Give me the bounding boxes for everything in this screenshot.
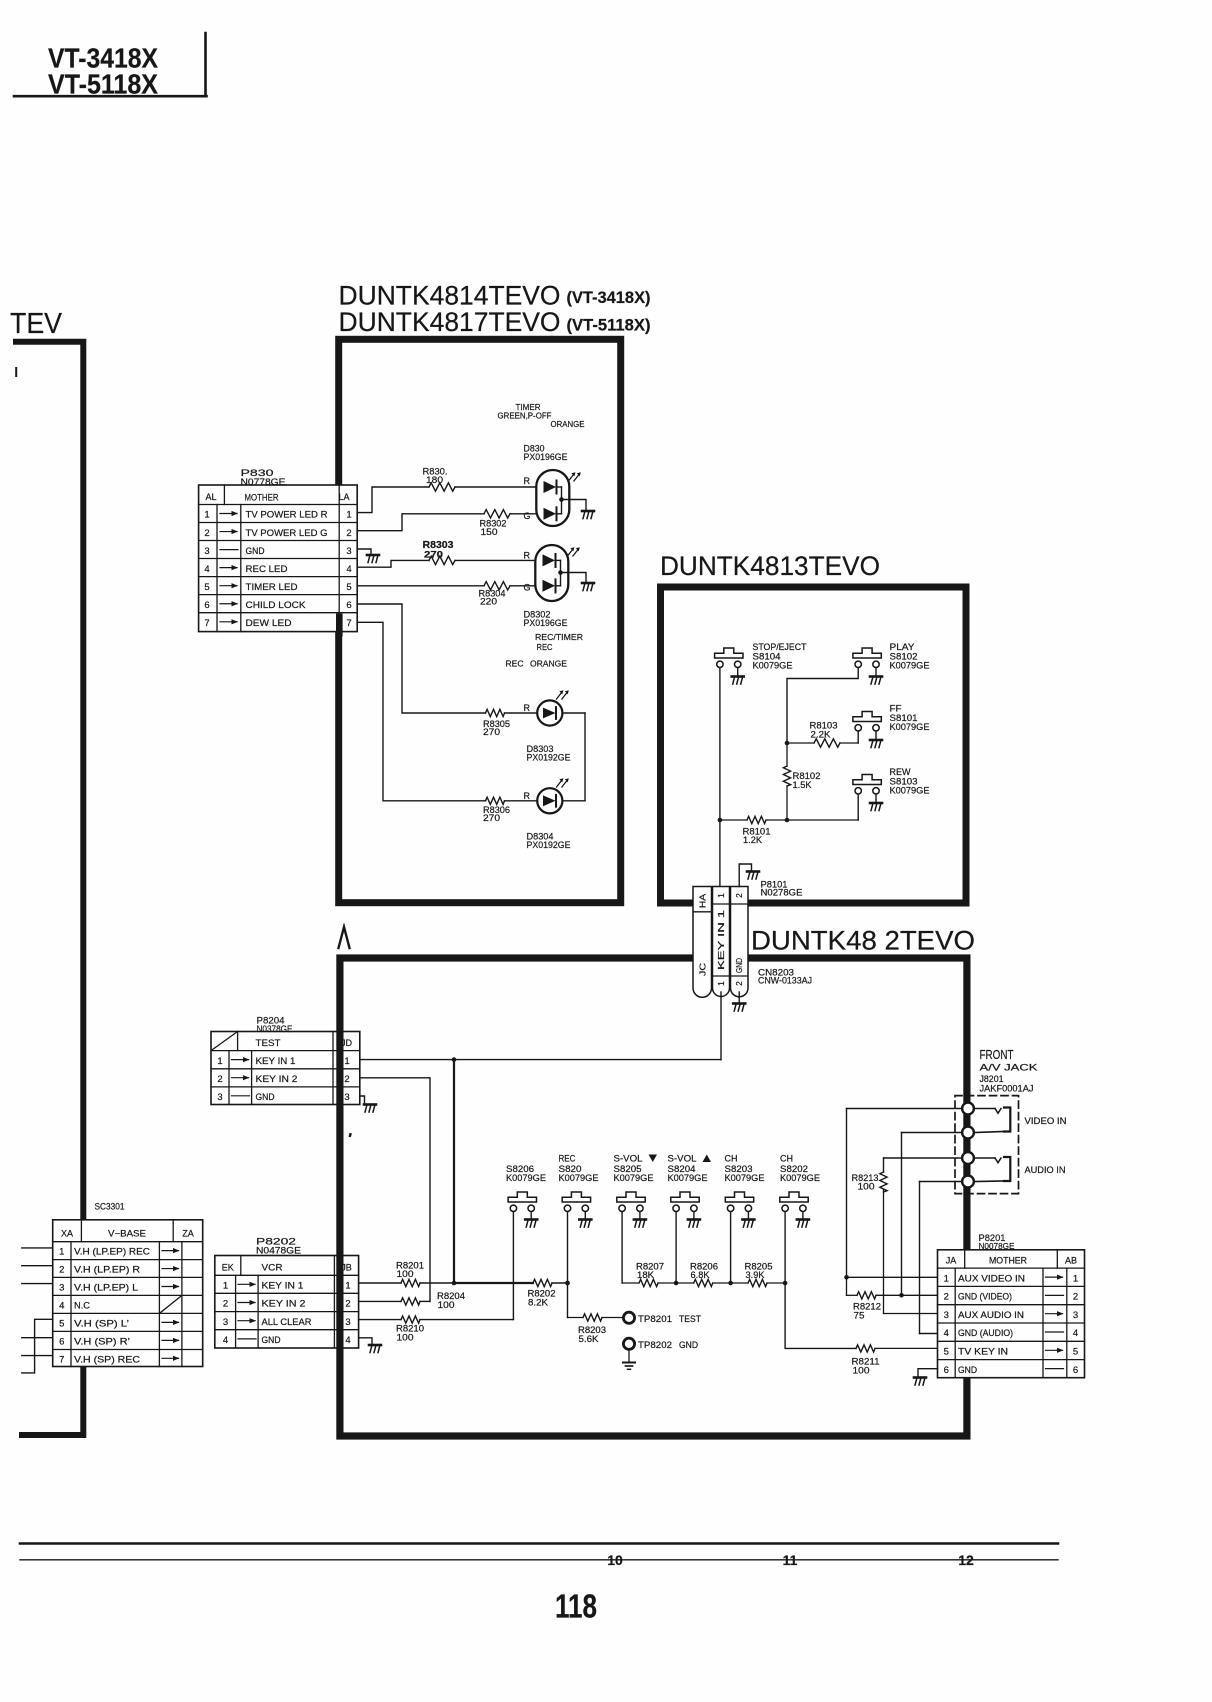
resistor R8213 100 bbox=[852, 1172, 939, 1314]
svg-text:K0079GE: K0079GE bbox=[890, 661, 930, 671]
svg-text:1: 1 bbox=[59, 1247, 64, 1258]
svg-text:JD: JD bbox=[341, 1038, 353, 1048]
connector table SC3301 bbox=[53, 1220, 203, 1367]
svg-text:K0079GE: K0079GE bbox=[506, 1173, 546, 1183]
svg-text:ORANGE: ORANGE bbox=[551, 419, 585, 429]
wire S8205 to ladder bbox=[621, 1212, 623, 1283]
svg-text:5: 5 bbox=[59, 1319, 64, 1330]
svg-text:3: 3 bbox=[346, 546, 351, 557]
label STOP/EJECT S8104 K0079GE bbox=[753, 642, 807, 671]
connector P8101/CN8203 pillars bbox=[693, 887, 748, 998]
svg-text:R: R bbox=[524, 551, 531, 561]
svg-text:GND: GND bbox=[958, 1365, 977, 1375]
svg-text:6: 6 bbox=[1073, 1365, 1078, 1376]
svg-text:GND: GND bbox=[256, 1092, 275, 1103]
LED D8304 bbox=[537, 788, 562, 813]
speck bbox=[349, 1133, 352, 1137]
svg-text:75: 75 bbox=[854, 1311, 865, 1321]
connector P8204 labels bbox=[257, 1016, 293, 1036]
svg-text:1: 1 bbox=[944, 1273, 949, 1284]
svg-text:GND: GND bbox=[262, 1335, 281, 1346]
board edge segment over table bbox=[336, 614, 343, 637]
wire audio gnd to GND (AUDIO) bbox=[920, 1182, 963, 1334]
svg-text:VT-5118X: VT-5118X bbox=[48, 69, 158, 100]
connector P830 labels bbox=[241, 468, 286, 488]
ground bbox=[525, 1220, 537, 1228]
label S8205 K0079GE bbox=[614, 1154, 658, 1184]
svg-text:1: 1 bbox=[223, 1281, 228, 1292]
resistor R8306 270 bbox=[483, 797, 537, 823]
svg-text:100: 100 bbox=[397, 1269, 414, 1279]
ground bbox=[582, 583, 594, 591]
svg-text:6.8K: 6.8K bbox=[691, 1270, 710, 1280]
svg-text:PX0192GE: PX0192GE bbox=[527, 840, 571, 851]
resistor R8101 1.2K bbox=[720, 816, 858, 845]
svg-text:5: 5 bbox=[346, 582, 351, 593]
wire P830 pin5 to R8304 bbox=[357, 585, 484, 587]
wire S8204 to ladder bbox=[674, 1212, 679, 1285]
connector P8202 labels bbox=[256, 1237, 301, 1257]
svg-text:FF: FF bbox=[890, 704, 903, 714]
wire S8202 key to R8211 bbox=[785, 1283, 856, 1348]
wire S8203 to ladder bbox=[728, 1212, 733, 1285]
svg-text:V.H (SP) L’: V.H (SP) L’ bbox=[74, 1319, 129, 1329]
svg-text:1: 1 bbox=[344, 1056, 349, 1067]
wire D8303/D8304 cathode tie bbox=[562, 713, 585, 801]
svg-text:2: 2 bbox=[344, 1074, 349, 1085]
board outline DUNTK48-2TEVO box bbox=[340, 958, 967, 1436]
svg-text:3: 3 bbox=[344, 1092, 349, 1103]
wire P8204 pin1 KEY IN 1 bus bbox=[360, 1057, 721, 1062]
switch S8206 bbox=[508, 1192, 536, 1212]
svg-text:REC: REC bbox=[506, 659, 524, 669]
svg-text:11: 11 bbox=[783, 1552, 798, 1568]
svg-text:(VT-5118X): (VT-5118X) bbox=[567, 316, 651, 335]
ground bbox=[747, 872, 759, 880]
svg-text:3: 3 bbox=[345, 1317, 350, 1328]
label TP8202 GND bbox=[638, 1340, 698, 1350]
svg-text:R: R bbox=[524, 703, 531, 713]
wire switch to ground bbox=[747, 1212, 749, 1219]
svg-text:2: 2 bbox=[59, 1265, 64, 1276]
label S820 K0079GE bbox=[559, 1154, 599, 1184]
svg-text:TP8201: TP8201 bbox=[638, 1314, 672, 1324]
svg-text:18K: 18K bbox=[637, 1270, 654, 1280]
svg-text:G: G bbox=[524, 511, 531, 521]
svg-text:HA: HA bbox=[698, 893, 708, 908]
svg-text:REC/TIMER: REC/TIMER bbox=[535, 632, 583, 642]
svg-text:S-VOL: S-VOL bbox=[668, 1154, 697, 1164]
wire S8101 to ground bbox=[875, 731, 877, 739]
svg-text:K0079GE: K0079GE bbox=[725, 1173, 765, 1183]
svg-text:V.H (LP.EP) R: V.H (LP.EP) R bbox=[74, 1265, 141, 1275]
svg-text:3: 3 bbox=[59, 1283, 64, 1294]
svg-text:180: 180 bbox=[426, 475, 443, 485]
svg-text:GND (AUDIO): GND (AUDIO) bbox=[958, 1328, 1013, 1338]
resistor R8102 1.5K bbox=[783, 743, 820, 820]
svg-text:REW: REW bbox=[890, 767, 912, 777]
svg-text:2: 2 bbox=[223, 1299, 228, 1310]
wire SC3301 pin6 bbox=[22, 1337, 53, 1339]
svg-text:JB: JB bbox=[341, 1263, 352, 1273]
svg-text:J8201: J8201 bbox=[980, 1074, 1004, 1084]
wire P830 pin3 to ground bbox=[357, 549, 371, 555]
label S8203 K0079GE bbox=[725, 1154, 765, 1184]
svg-text:5: 5 bbox=[1073, 1347, 1078, 1358]
resistor R8211 100 bbox=[852, 1345, 939, 1376]
svg-text:270: 270 bbox=[424, 549, 443, 560]
svg-text:A/V JACK: A/V JACK bbox=[980, 1063, 1038, 1073]
svg-text:270: 270 bbox=[483, 813, 500, 823]
svg-text:MOTHER: MOTHER bbox=[989, 1256, 1027, 1267]
svg-text:K0079GE: K0079GE bbox=[559, 1173, 599, 1183]
svg-text:6: 6 bbox=[944, 1365, 949, 1376]
svg-text:PLAY: PLAY bbox=[890, 642, 915, 652]
svg-text:6: 6 bbox=[204, 600, 209, 611]
wire P8202 pin3 ALL CLEAR to S8206 bbox=[359, 1319, 401, 1321]
svg-text:KEY IN 2: KEY IN 2 bbox=[256, 1074, 298, 1085]
ground bbox=[733, 1004, 745, 1012]
svg-text:K0079GE: K0079GE bbox=[780, 1173, 820, 1183]
footer rule lower bbox=[20, 1559, 1058, 1561]
svg-text:GND: GND bbox=[734, 958, 744, 973]
label PLAY S8102 K0079GE bbox=[890, 642, 930, 671]
light arrows D830 bbox=[569, 472, 581, 481]
svg-text:4: 4 bbox=[345, 1335, 350, 1346]
resistor R8303 270 bbox=[423, 540, 536, 565]
wire CN8203 pin2 to ground bbox=[738, 992, 740, 1003]
ground bbox=[732, 677, 744, 685]
ground bbox=[369, 1345, 381, 1353]
svg-text:5: 5 bbox=[204, 582, 209, 593]
resistor R8204 100 bbox=[401, 1291, 465, 1310]
svg-text:TEST: TEST bbox=[256, 1038, 281, 1049]
jack AUDIO IN symbol bbox=[974, 1157, 1010, 1182]
svg-text:2: 2 bbox=[944, 1292, 949, 1303]
test point TP8201 bbox=[623, 1312, 634, 1323]
svg-text:K0079GE: K0079GE bbox=[890, 786, 930, 796]
label J8201 JAKF0001AJ bbox=[980, 1074, 1034, 1094]
wire video tip to AUX VIDEO IN bbox=[844, 1109, 962, 1280]
wire S8102 to R8102 node bbox=[787, 668, 858, 743]
svg-text:JAKF0001AJ: JAKF0001AJ bbox=[980, 1084, 1034, 1094]
svg-text:N0278GE: N0278GE bbox=[761, 888, 803, 898]
label D8302 PX0196GE bbox=[524, 610, 568, 630]
node REC key junction bbox=[565, 1281, 570, 1286]
wire D830 cathode to ground bbox=[562, 500, 587, 511]
jack VIDEO IN symbol bbox=[974, 1108, 1010, 1133]
wire S8104 to ground bbox=[737, 668, 739, 676]
switch S8205 S-VOL bbox=[617, 1192, 645, 1212]
svg-text:PX0196GE: PX0196GE bbox=[524, 618, 568, 629]
svg-text:DUNTK4814TEVO: DUNTK4814TEVO bbox=[339, 281, 561, 311]
wire S8103 down to bus bbox=[857, 794, 859, 820]
svg-text:R: R bbox=[524, 791, 531, 801]
svg-text:GND: GND bbox=[679, 1340, 698, 1350]
wire P8202 pin1 to R8201 bbox=[359, 1282, 401, 1284]
label S8206 K0079GE bbox=[506, 1164, 546, 1183]
switch S8101 FF bbox=[853, 712, 881, 732]
resistor R8205 3.9K bbox=[731, 1262, 786, 1287]
svg-text:3: 3 bbox=[204, 546, 209, 557]
light arrows D8303 bbox=[557, 690, 569, 699]
jack J8201 contacts bbox=[962, 1103, 974, 1188]
ground bbox=[797, 1220, 809, 1228]
resistor R8210 100 bbox=[396, 1316, 513, 1343]
ground bbox=[367, 555, 379, 563]
ground bbox=[914, 1378, 926, 1386]
svg-text:S-VOL: S-VOL bbox=[614, 1154, 643, 1164]
svg-text:220: 220 bbox=[480, 597, 497, 607]
svg-text:2: 2 bbox=[204, 528, 209, 539]
svg-text:TIMER LED: TIMER LED bbox=[246, 582, 298, 593]
switch S8202 CH bbox=[780, 1192, 808, 1212]
ground bbox=[870, 677, 882, 685]
svg-text:G: G bbox=[524, 583, 531, 593]
svg-text:K0079GE: K0079GE bbox=[890, 722, 930, 732]
svg-text:4: 4 bbox=[204, 564, 209, 575]
svg-text:1.2K: 1.2K bbox=[743, 835, 762, 845]
svg-text:PX0196GE: PX0196GE bbox=[524, 452, 568, 463]
wire S8104 to R8101 junction and P8101 bbox=[718, 668, 723, 887]
resistor R8201 100 bbox=[396, 1261, 454, 1287]
svg-text:4: 4 bbox=[346, 564, 351, 575]
resistor R8206 6.8K bbox=[676, 1262, 731, 1287]
svg-text:K0079GE: K0079GE bbox=[753, 661, 793, 671]
label TP8201 TEST bbox=[638, 1314, 701, 1324]
label CN8203 CNW-0133AJ bbox=[758, 968, 812, 986]
jack housing dashed box bbox=[955, 1096, 1019, 1194]
svg-text:GREEN,P-OFF: GREEN,P-OFF bbox=[498, 411, 552, 421]
svg-text:DUNTK4817TEVO: DUNTK4817TEVO bbox=[339, 307, 561, 337]
wire S8101 to R8103 bbox=[840, 731, 858, 743]
svg-text:3: 3 bbox=[223, 1317, 228, 1328]
svg-text:2: 2 bbox=[345, 1299, 350, 1310]
test point TP8202 bbox=[623, 1338, 634, 1349]
board outline DUNTK4813TEVO box bbox=[661, 587, 967, 903]
wire P8204 pin2 KEY IN 2 drop bbox=[360, 1078, 430, 1302]
label REW S8103 K0079GE bbox=[890, 767, 930, 796]
ground bbox=[364, 1105, 376, 1113]
wire P8202 pin2 to R8204 bbox=[359, 1300, 401, 1302]
svg-text:KEY IN 1: KEY IN 1 bbox=[256, 1056, 296, 1067]
label S8204 K0079GE bbox=[668, 1154, 712, 1184]
svg-text:V−BASE: V−BASE bbox=[108, 1229, 146, 1239]
svg-text:12: 12 bbox=[958, 1552, 974, 1568]
svg-text:1: 1 bbox=[716, 893, 726, 898]
board outline left (partial box) bbox=[16, 342, 83, 1435]
wire switch to ground bbox=[530, 1212, 532, 1219]
svg-text:4: 4 bbox=[223, 1335, 228, 1346]
svg-text:VIDEO IN: VIDEO IN bbox=[1025, 1116, 1067, 1126]
wire P830 pin4 to R8303 bbox=[357, 560, 429, 567]
svg-text:2: 2 bbox=[734, 893, 744, 898]
label D830 PX0196GE bbox=[524, 444, 568, 464]
svg-text:CHILD LOCK: CHILD LOCK bbox=[246, 600, 307, 611]
svg-text:1: 1 bbox=[217, 1056, 222, 1067]
svg-text:4: 4 bbox=[944, 1328, 949, 1339]
wire switch to ground bbox=[584, 1212, 586, 1219]
svg-text:7: 7 bbox=[204, 618, 209, 629]
connector table P830 bbox=[199, 485, 358, 632]
wire P8101 pin2 to ground bbox=[739, 864, 751, 887]
svg-text:7: 7 bbox=[346, 618, 351, 629]
label D8304 PX0192GE bbox=[527, 832, 571, 852]
svg-text:TEV: TEV bbox=[10, 308, 63, 340]
board outline DUNTK4814TEVO box bbox=[339, 339, 621, 902]
svg-text:2.2K: 2.2K bbox=[811, 730, 831, 740]
svg-text:1: 1 bbox=[345, 1281, 350, 1292]
svg-text:AUDIO IN: AUDIO IN bbox=[1025, 1165, 1066, 1175]
wire switch to ground bbox=[693, 1212, 695, 1219]
svg-text:3: 3 bbox=[217, 1092, 222, 1103]
svg-text:5: 5 bbox=[944, 1347, 949, 1358]
svg-text:AB: AB bbox=[1065, 1256, 1077, 1266]
connector table P8204 bbox=[211, 1032, 360, 1105]
svg-text:N.C: N.C bbox=[74, 1301, 91, 1311]
svg-text:1.5K: 1.5K bbox=[793, 780, 812, 790]
resistor R8103 2.2K bbox=[787, 721, 840, 748]
wire CN8203 pin1 KEY IN 1 bbox=[720, 992, 722, 1060]
svg-text:AUX VIDEO IN: AUX VIDEO IN bbox=[958, 1273, 1025, 1283]
svg-text:1: 1 bbox=[204, 510, 209, 521]
dual LED D8302 bbox=[535, 545, 568, 601]
wire P8201 pin6 to ground bbox=[918, 1369, 938, 1377]
switch S8203 CH bbox=[725, 1192, 753, 1212]
svg-text:VCR: VCR bbox=[262, 1263, 283, 1274]
ground bbox=[688, 1220, 700, 1228]
svg-text:TP8202: TP8202 bbox=[638, 1340, 672, 1350]
svg-text:3: 3 bbox=[1073, 1310, 1078, 1321]
svg-text:DUNTK4813TEVO: DUNTK4813TEVO bbox=[660, 551, 880, 581]
svg-text:JC: JC bbox=[698, 963, 708, 976]
svg-text:3.9K: 3.9K bbox=[746, 1270, 765, 1280]
svg-text:118: 118 bbox=[555, 1588, 597, 1625]
label FRONT A/V JACK bbox=[980, 1048, 1038, 1073]
svg-text:DUNTK48 2TEVO: DUNTK48 2TEVO bbox=[751, 926, 975, 956]
wire SC3301 pin1 bbox=[22, 1247, 53, 1249]
svg-text:V.H (LP.EP) REC: V.H (LP.EP) REC bbox=[74, 1247, 151, 1257]
wire KEY IN 1 drop bbox=[453, 1060, 455, 1283]
svg-text:3: 3 bbox=[944, 1310, 949, 1321]
svg-text:2: 2 bbox=[734, 981, 744, 986]
resistor R8207 18K bbox=[622, 1262, 676, 1287]
LED D8303 bbox=[537, 700, 562, 725]
node R8102 top junction bbox=[785, 741, 790, 746]
svg-text:10: 10 bbox=[607, 1552, 623, 1568]
wire S8103 to ground bbox=[875, 794, 877, 802]
label REC ORANGE bbox=[506, 659, 568, 669]
ground bbox=[742, 1220, 754, 1228]
svg-text:TV KEY IN: TV KEY IN bbox=[958, 1347, 1008, 1357]
svg-text:ALL CLEAR: ALL CLEAR bbox=[262, 1317, 312, 1328]
svg-text:AUX AUDIO IN: AUX AUDIO IN bbox=[958, 1310, 1024, 1320]
svg-text:V.H (SP) R’: V.H (SP) R’ bbox=[74, 1336, 130, 1346]
svg-text:V.H (LP.EP) L: V.H (LP.EP) L bbox=[74, 1283, 138, 1293]
svg-text:ORANGE: ORANGE bbox=[530, 659, 567, 669]
wire SC3301 pin3 bbox=[22, 1283, 53, 1285]
svg-text:K0079GE: K0079GE bbox=[668, 1173, 708, 1183]
wire video gnd to R8212 node bbox=[899, 1133, 962, 1298]
svg-text:TV POWER LED R: TV POWER LED R bbox=[246, 510, 328, 521]
wire P8204 pin3 to ground bbox=[360, 1096, 365, 1104]
connector rotated pin labels bbox=[698, 893, 745, 986]
resistor R8203 5.6K bbox=[568, 1314, 623, 1344]
wire S8206 to ALL CLEAR line bbox=[512, 1212, 514, 1320]
wire S820 REC to key bus bbox=[565, 1212, 570, 1318]
wire P8202 pin4 to ground bbox=[359, 1338, 372, 1345]
ground bbox=[582, 511, 594, 519]
svg-text:2: 2 bbox=[1073, 1292, 1078, 1303]
svg-text:100: 100 bbox=[397, 1333, 414, 1343]
svg-text:N0378GE: N0378GE bbox=[257, 1024, 293, 1035]
wire S8102 to ground bbox=[875, 668, 877, 676]
label TIMER / GREEN,P-OFF / ORANGE bbox=[498, 402, 585, 429]
earth ground TP8202 bbox=[623, 1350, 635, 1370]
resistor R8202 8.2K bbox=[528, 1279, 568, 1307]
wire switch to ground bbox=[802, 1212, 804, 1219]
wire D8302 cathode to ground bbox=[561, 573, 587, 583]
svg-text:DEW LED: DEW LED bbox=[246, 618, 292, 629]
resistor R8305 270 bbox=[483, 709, 537, 737]
svg-text:V.H (SP) REC: V.H (SP) REC bbox=[74, 1354, 141, 1364]
resistor R8302 150 bbox=[480, 510, 537, 537]
svg-text:KEY IN 2: KEY IN 2 bbox=[262, 1299, 306, 1310]
label REC/TIMER REC bbox=[535, 632, 583, 652]
wire SC3301 pin5 bbox=[22, 1319, 53, 1373]
wire P830 pin6 down to R8305 bbox=[357, 604, 485, 713]
svg-text:100: 100 bbox=[858, 1182, 875, 1192]
svg-text:REC LED: REC LED bbox=[246, 564, 288, 575]
svg-text:XA: XA bbox=[61, 1229, 73, 1239]
svg-text:KEY IN 1: KEY IN 1 bbox=[717, 909, 726, 970]
svg-text:100: 100 bbox=[853, 1366, 870, 1376]
resistor R8304 220 bbox=[479, 582, 536, 607]
svg-text:CH: CH bbox=[725, 1154, 738, 1164]
stray glyph caret bbox=[339, 927, 350, 948]
wire SC3301 pin2 bbox=[22, 1265, 53, 1267]
wire SC3301 pin7 bbox=[22, 1355, 53, 1357]
footer rule upper bbox=[20, 1542, 1058, 1545]
svg-text:REC: REC bbox=[537, 642, 553, 652]
switch S8104 STOP/EJECT bbox=[715, 648, 743, 668]
svg-text:TV POWER LED G: TV POWER LED G bbox=[246, 528, 328, 539]
wire KEY IN 1 to R8202 bbox=[452, 1281, 533, 1286]
svg-text:STOP/EJECT: STOP/EJECT bbox=[753, 642, 807, 652]
tick mark on left edge bbox=[15, 368, 17, 376]
svg-text:4: 4 bbox=[1073, 1328, 1078, 1339]
wire S8202 to ladder end bbox=[783, 1212, 788, 1285]
svg-text:JA: JA bbox=[946, 1256, 957, 1266]
svg-text:GND: GND bbox=[246, 546, 265, 557]
ground bbox=[579, 1220, 591, 1228]
wire P830 pin7 down to R8306 bbox=[357, 622, 485, 801]
svg-text:ZA: ZA bbox=[182, 1229, 194, 1239]
label P8101 N0278GE bbox=[761, 880, 803, 898]
dual LED D830 bbox=[536, 470, 569, 526]
wire switch to ground bbox=[639, 1212, 641, 1219]
svg-text:REC: REC bbox=[559, 1154, 576, 1164]
resistor R830. 180 bbox=[423, 467, 537, 492]
svg-text:LA: LA bbox=[338, 492, 349, 502]
light arrows D8304 bbox=[557, 778, 569, 787]
svg-text:1: 1 bbox=[346, 510, 351, 521]
svg-text:K0079GE: K0079GE bbox=[614, 1173, 654, 1183]
svg-text:7: 7 bbox=[59, 1354, 64, 1365]
svg-text:CNW-0133AJ: CNW-0133AJ bbox=[758, 976, 812, 986]
connector table P8202 bbox=[215, 1256, 359, 1349]
svg-text:R: R bbox=[524, 476, 531, 486]
